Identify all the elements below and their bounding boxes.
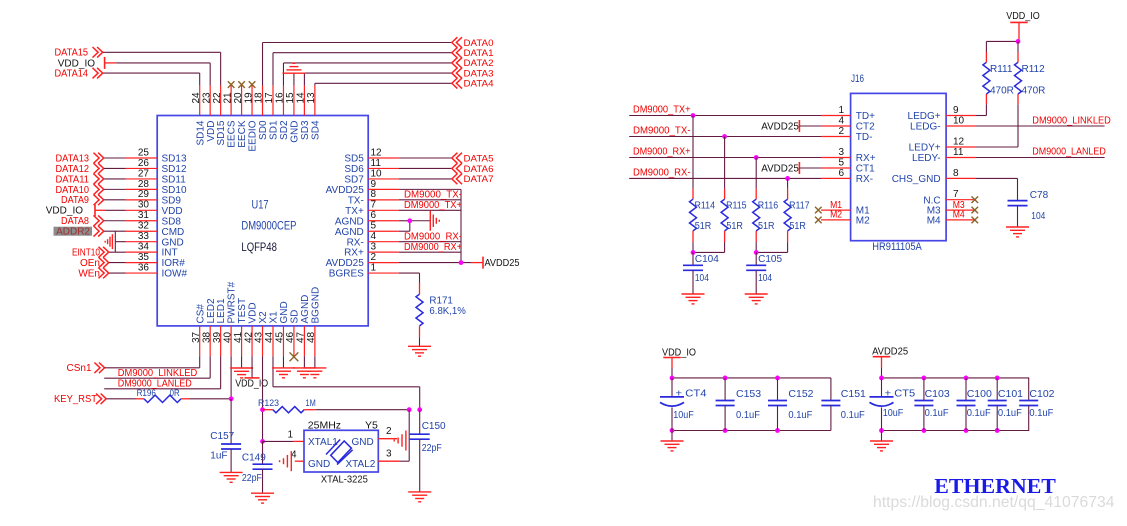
wire DATA11 to pin 27: [104, 178, 126, 180]
svg-text:1: 1: [287, 430, 293, 441]
svg-text:LEDY-: LEDY-: [912, 153, 941, 164]
svg-text:35: 35: [138, 252, 150, 263]
svg-text:DATA10: DATA10: [56, 185, 90, 196]
svg-text:AVDD25: AVDD25: [872, 346, 908, 357]
svg-text:DM9000_LANLED: DM9000_LANLED: [1032, 147, 1106, 158]
svg-text:DM9000_LINKLED: DM9000_LINKLED: [1032, 115, 1111, 126]
wire OEn: [109, 262, 126, 264]
pin 1 BGRES (right): [368, 272, 399, 274]
svg-text:6: 6: [838, 168, 844, 179]
ground flipped at pin 15 GND: [293, 73, 295, 85]
svg-text:RX-: RX-: [856, 174, 873, 185]
J16 pin M1 M1 (left): [821, 209, 851, 211]
pin 10 SD7 (right): [368, 178, 399, 180]
svg-text:GND: GND: [308, 459, 330, 470]
J16 pin 11 LEDY- (right): [946, 157, 976, 159]
svg-text:8: 8: [953, 168, 959, 179]
wire ADDR2 to pin 32: [104, 230, 126, 232]
svg-text:DATA1: DATA1: [464, 48, 494, 58]
svg-text:IOR#: IOR#: [162, 258, 186, 269]
svg-text:2: 2: [386, 426, 392, 437]
svg-text:AVDD25: AVDD25: [326, 258, 365, 269]
net label DM9000_RX- on pin 4: [399, 241, 461, 243]
pin 48 BGGND (bottom): [314, 326, 316, 356]
capacitor C100 0.1uF: [965, 378, 967, 401]
resistor R115 51R: [724, 137, 726, 189]
svg-text:DATA14: DATA14: [55, 69, 89, 80]
svg-text:LED1: LED1: [216, 298, 227, 323]
svg-text:M4: M4: [927, 216, 941, 227]
svg-text:SD13: SD13: [162, 154, 187, 165]
pin 31 SD8 (left): [126, 220, 158, 222]
svg-text:11: 11: [953, 147, 964, 158]
no-connect X at J16 pin 7: [972, 196, 979, 203]
svg-text:SD9: SD9: [162, 195, 182, 206]
svg-text:C153: C153: [736, 388, 761, 400]
power AVDD25 at pin 2: [399, 262, 471, 264]
svg-text:CSn1: CSn1: [66, 363, 91, 374]
svg-text:BGGND: BGGND: [310, 287, 321, 324]
port DATA2: [452, 58, 462, 69]
svg-text:WEn: WEn: [78, 268, 100, 279]
port DATA7: [452, 174, 462, 185]
capacitor C101 0.1uF: [996, 378, 998, 401]
wire AVDD25 pin9 down to pin2 row: [399, 188, 461, 190]
pin 12 SD5 (right): [368, 157, 399, 159]
net label ADDR2 (highlighted): [54, 227, 93, 236]
svg-text:VDD: VDD: [206, 121, 217, 142]
svg-text:0R: 0R: [170, 388, 180, 398]
svg-text:470R: 470R: [1022, 85, 1046, 96]
svg-text:DM9000_TX+: DM9000_TX+: [404, 200, 462, 211]
svg-text:XTAL2: XTAL2: [346, 459, 376, 470]
capacitor C157 1uF: [221, 444, 241, 449]
pin 35 IOR# (left): [126, 262, 158, 264]
wire R114-R115 junction: [692, 242, 694, 252]
ground at pin 45 GND: [282, 356, 284, 368]
svg-text:32: 32: [138, 221, 150, 232]
ground below R171: [408, 346, 431, 356]
svg-text:+ CT4: + CT4: [676, 387, 707, 399]
svg-text:11: 11: [371, 158, 382, 169]
ground at pin 47 AGND: [303, 356, 305, 368]
svg-text:CHS_GND: CHS_GND: [892, 174, 941, 185]
rail top VDD_IO: [672, 377, 831, 379]
svg-text:GND: GND: [352, 437, 374, 448]
svg-text:3: 3: [371, 242, 377, 253]
pin 25 SD13 (left): [126, 157, 158, 159]
resistor R123 1M: [263, 409, 273, 411]
crystal pin 2 stub: [378, 438, 397, 440]
svg-text:SD5: SD5: [344, 154, 364, 165]
pin 16 SD2 (top): [282, 85, 284, 115]
svg-text:14: 14: [296, 92, 307, 104]
capacitor C152 0.1uF: [777, 378, 779, 401]
svg-text:43: 43: [254, 331, 265, 343]
port DATA0: [452, 37, 462, 48]
svg-text:DATA4: DATA4: [464, 79, 494, 89]
svg-text:CMD: CMD: [162, 227, 185, 238]
pin 22 SD15 (top): [220, 85, 222, 115]
port DATA6: [452, 163, 462, 174]
svg-text:AVDD25: AVDD25: [761, 163, 799, 174]
svg-text:0.1uF: 0.1uF: [967, 407, 991, 419]
svg-text:45: 45: [275, 331, 286, 343]
pin 28 SD10 (left): [126, 188, 158, 190]
svg-text:9: 9: [371, 179, 377, 190]
svg-text:R117: R117: [789, 200, 810, 211]
pin 11 SD6 (right): [368, 167, 399, 169]
wire VDD_IO to R111 R112: [986, 40, 1019, 42]
svg-text:0.1uF: 0.1uF: [1029, 407, 1053, 419]
pin 32 CMD (left): [126, 230, 158, 232]
wire C78 to ground: [1017, 206, 1019, 227]
wire C149 to ground: [262, 469, 264, 493]
J16 pin 4 CT2 (left): [821, 125, 851, 127]
svg-text:15: 15: [285, 92, 296, 104]
wire AGND pins 6-5 junction: [399, 220, 410, 222]
svg-text:17: 17: [264, 92, 275, 104]
svg-text:C105: C105: [758, 254, 782, 265]
svg-text:DM9000_LINKLED: DM9000_LINKLED: [118, 368, 198, 379]
svg-text:27: 27: [138, 168, 150, 179]
wire pin43 to XTAL1 pin 1: [263, 440, 293, 442]
svg-text:104: 104: [1031, 211, 1045, 222]
svg-text:37: 37: [191, 331, 202, 343]
svg-text:HR911105A: HR911105A: [872, 241, 922, 253]
wire DATA2 from pin 16: [282, 63, 284, 86]
svg-text:SD0: SD0: [258, 120, 269, 140]
wire VDD_IO to pin 23 VDD: [116, 62, 210, 64]
svg-text:DM9000_RX+: DM9000_RX+: [633, 147, 691, 158]
ground below C149: [251, 493, 274, 503]
svg-text:1: 1: [371, 262, 377, 273]
svg-text:21: 21: [222, 92, 233, 104]
wire down to C149: [262, 441, 264, 464]
pin 23 VDD (top): [209, 85, 211, 115]
wire X1 node down through C150: [419, 410, 421, 435]
svg-text:C101: C101: [998, 388, 1023, 400]
svg-text:0.1uF: 0.1uF: [736, 409, 760, 421]
J16 pin 2 TD- (left): [821, 136, 851, 138]
svg-text:12: 12: [953, 136, 965, 147]
crystal pin 3 stub: [378, 460, 399, 462]
svg-text:TEST: TEST: [237, 298, 248, 324]
svg-text:DATA13: DATA13: [56, 153, 90, 164]
wire R196 to pin 40 PWRST#: [190, 398, 232, 400]
capacitor C153 0.1uF: [724, 378, 726, 401]
svg-text:C100: C100: [967, 388, 992, 400]
pin 42 VDD (bottom): [251, 326, 253, 356]
svg-text:48: 48: [306, 331, 317, 343]
svg-text:10: 10: [953, 115, 965, 126]
svg-text:41: 41: [233, 331, 244, 343]
no-connect X at J16 M1: [815, 207, 822, 214]
svg-text:20: 20: [233, 92, 244, 104]
wire VDD_IO to pin 30: [106, 209, 126, 211]
no-connect X pins 21-20-19: [228, 81, 235, 88]
svg-text:5: 5: [371, 221, 377, 232]
crystal symbol inside Y5: [326, 440, 353, 465]
resistor R114 51R: [692, 116, 694, 189]
svg-text:LQFP48: LQFP48: [241, 240, 277, 254]
wire XTAL2 node down to crystal pin 3: [407, 407, 412, 412]
svg-text:DM9000_TX+: DM9000_TX+: [633, 105, 691, 116]
pin 9 AVDD25 (right): [368, 188, 399, 190]
wire C104 to ground: [692, 270, 694, 294]
svg-text:33: 33: [138, 231, 150, 242]
rail bottom VDD_IO: [672, 430, 831, 432]
wire DM9000_TX+ to J16: [629, 115, 821, 117]
svg-text:4: 4: [371, 231, 377, 242]
svg-text:34: 34: [138, 242, 150, 253]
svg-text:EECS: EECS: [227, 120, 238, 148]
svg-text:TD-: TD-: [856, 132, 873, 143]
svg-text:22pF: 22pF: [422, 443, 442, 454]
svg-text:RX+: RX+: [344, 248, 364, 259]
svg-text:R111: R111: [990, 64, 1013, 75]
wire LEDG+ pin9 to R111: [976, 115, 986, 117]
pin 15 GND (top): [293, 85, 295, 115]
svg-text:GND: GND: [279, 301, 290, 323]
J16 pin M2 M2 (left): [821, 219, 851, 221]
wire R116-R117 junction: [755, 242, 757, 252]
pin 5 AGND (right): [368, 230, 399, 232]
crystal pin 4 stub: [295, 460, 304, 462]
svg-text:EECK: EECK: [237, 120, 248, 148]
svg-text:CS#: CS#: [195, 304, 206, 324]
pin 46 SD (bottom): [293, 326, 295, 356]
wire DATA8 to pin 31: [104, 220, 126, 222]
svg-text:0.1uF: 0.1uF: [788, 409, 812, 421]
svg-text:KEY_RST: KEY_RST: [54, 394, 97, 405]
svg-text:DM9000_RX-: DM9000_RX-: [633, 167, 691, 178]
svg-text:SD10: SD10: [162, 185, 187, 196]
svg-text:29: 29: [138, 189, 150, 200]
pin 8 TX- (right): [368, 199, 399, 201]
svg-text:C157: C157: [210, 431, 234, 442]
power VDD_IO at pin 42: [251, 356, 253, 378]
svg-text:104: 104: [758, 273, 772, 284]
svg-text:DATA7: DATA7: [464, 174, 494, 184]
svg-text:9: 9: [953, 105, 959, 116]
svg-text:SD8: SD8: [162, 216, 182, 227]
svg-text:5: 5: [838, 157, 844, 168]
svg-text:DATA5: DATA5: [464, 153, 494, 163]
pin 21 EECS (top): [230, 85, 232, 115]
svg-text:2: 2: [371, 252, 377, 263]
no-connect X at pin 46 SD: [290, 352, 299, 361]
ground below C157: [220, 472, 243, 482]
ground sideways at crystal pin 2: [394, 431, 406, 451]
svg-text:SD14: SD14: [195, 120, 206, 145]
capacitor CT5 10uF polarized: [881, 378, 883, 397]
J16 pin M4 M4 (right): [946, 219, 976, 221]
pin 45 GND (bottom): [282, 326, 284, 356]
svg-text:SD1: SD1: [269, 120, 280, 140]
svg-text:PWRST#: PWRST#: [227, 281, 238, 323]
J16 pin 12 LEDY+ (right): [946, 146, 976, 148]
J16 pin 10 LEDG- (right): [946, 125, 976, 127]
wire BGRES pin 1 to R171: [399, 272, 420, 274]
J16 pin 9 LEDG+ (right): [946, 115, 976, 117]
resistor R117 51R: [787, 178, 789, 188]
svg-text:1: 1: [838, 105, 844, 116]
J16 pin 7 N.C (right): [946, 199, 976, 201]
ground below C150: [408, 492, 431, 502]
J16 pin 5 CT1 (left): [821, 167, 851, 169]
svg-text:44: 44: [264, 331, 275, 343]
J16 pin 1 TD+ (left): [821, 115, 851, 117]
svg-text:25: 25: [138, 147, 150, 158]
wire DATA5 DATA6 DATA7 rows: [399, 157, 452, 159]
svg-text:R112: R112: [1022, 64, 1046, 75]
svg-text:30: 30: [138, 200, 150, 211]
svg-text:AVDD25: AVDD25: [761, 121, 799, 132]
svg-text:0.1uF: 0.1uF: [925, 407, 949, 419]
wire LEDY+ pin12 to R112: [976, 146, 1018, 148]
J16 pin 8 CHS_GND (right): [946, 177, 976, 179]
wire DATA10 to pin 28: [104, 188, 126, 190]
net label DM9000_LINKLED right: [976, 125, 1105, 127]
wire DATA0 from pin 18: [262, 43, 264, 86]
wire DM9000_RX- to J16: [629, 177, 821, 179]
svg-text:AVDD25: AVDD25: [326, 185, 365, 196]
J16 pin 6 RX- (left): [821, 177, 851, 179]
svg-text:31: 31: [138, 210, 150, 221]
pin 29 SD9 (left): [126, 199, 158, 201]
resistor R112 470R: [1017, 41, 1019, 52]
svg-text:16: 16: [275, 92, 286, 104]
svg-text:12: 12: [371, 147, 383, 158]
pin 30 VDD (left): [126, 209, 158, 211]
svg-text:10: 10: [371, 168, 383, 179]
wire DATA13 to pin 25: [104, 157, 126, 159]
pin 38 LED2 (bottom): [209, 326, 211, 356]
pin 40 PWRST# (bottom): [230, 326, 232, 356]
svg-text:DATA6: DATA6: [464, 164, 494, 174]
net label DM9000_LANLED right: [976, 157, 1105, 159]
svg-text:EEDIO: EEDIO: [248, 120, 259, 151]
svg-text:25MHz: 25MHz: [308, 419, 341, 431]
ground below C104: [682, 294, 705, 304]
net label DM9000_TX- on pin 8: [399, 199, 461, 201]
net label DM9000_RX+ on pin 3: [399, 251, 461, 253]
wire DM9000_TX- to J16: [629, 136, 821, 138]
svg-text:AVDD25: AVDD25: [485, 258, 520, 269]
svg-text:4: 4: [838, 115, 844, 126]
svg-text:M2: M2: [856, 216, 870, 227]
svg-text:1M: 1M: [306, 398, 316, 408]
svg-text:22: 22: [212, 92, 223, 104]
svg-text:N.C: N.C: [923, 195, 940, 206]
pin 36 IOW# (left): [126, 272, 158, 274]
svg-text:+ CT5: + CT5: [885, 387, 916, 399]
pin 13 SD4 (top): [314, 85, 316, 115]
port DATA3: [452, 68, 462, 79]
svg-text:IOW#: IOW#: [162, 269, 188, 280]
ground at pin 41 TEST: [241, 356, 243, 368]
wire DATA12 to pin 26: [104, 167, 126, 169]
svg-text:6.8K,1%: 6.8K,1%: [429, 305, 466, 317]
svg-text:R196: R196: [137, 388, 156, 398]
svg-text:https://blog.csdn.net/qq_41076: https://blog.csdn.net/qq_41076734: [873, 494, 1115, 511]
capacitor C78 104: [1008, 201, 1028, 206]
wire C150 to ground: [419, 439, 421, 492]
resistor R116 51R: [755, 158, 757, 189]
svg-text:0.1uF: 0.1uF: [841, 409, 865, 421]
pin 33 GND (left): [126, 241, 158, 243]
svg-text:VDD_IO: VDD_IO: [1006, 11, 1040, 22]
wire C105 to ground: [755, 270, 757, 294]
svg-text:DM9000_TX-: DM9000_TX-: [404, 190, 462, 201]
svg-text:DM9000_RX+: DM9000_RX+: [404, 242, 462, 253]
capacitor C103 0.1uF: [923, 378, 925, 401]
svg-text:SD12: SD12: [162, 164, 187, 175]
svg-text:46: 46: [285, 331, 296, 343]
svg-text:LEDG-: LEDG-: [910, 122, 941, 133]
svg-text:AGND: AGND: [335, 216, 364, 227]
svg-text:0.1uF: 0.1uF: [998, 407, 1022, 419]
svg-text:M2: M2: [830, 210, 842, 221]
svg-text:10uF: 10uF: [673, 409, 694, 421]
port DATA1: [452, 47, 462, 58]
svg-text:GND: GND: [290, 121, 301, 143]
svg-text:42: 42: [243, 331, 254, 343]
pin 19 EEDIO (top): [251, 85, 253, 115]
pin 34 INT (left): [126, 251, 158, 253]
crystal Y5 XTAL-3225 body: [304, 430, 378, 472]
ground sideways at crystal pin 4: [280, 451, 292, 471]
svg-text:VDD_IO: VDD_IO: [235, 379, 268, 390]
svg-text:J16: J16: [851, 73, 864, 85]
svg-text:23: 23: [201, 92, 212, 104]
svg-text:DM9000_RX-: DM9000_RX-: [404, 231, 462, 242]
svg-text:SD7: SD7: [344, 175, 364, 186]
pin 20 EECK (top): [241, 85, 243, 115]
svg-text:XTAL-3225: XTAL-3225: [321, 474, 368, 486]
pin 41 TEST (bottom): [241, 326, 243, 356]
wire pin 43 X2 down: [262, 356, 264, 441]
svg-text:DATA9: DATA9: [61, 195, 89, 206]
svg-text:3: 3: [838, 147, 844, 158]
net label DM9000_LINKLED on pin 38: [104, 377, 210, 379]
svg-text:3: 3: [386, 448, 392, 459]
svg-text:51R: 51R: [758, 221, 775, 232]
resistor R111 470R: [985, 41, 987, 52]
svg-text:7: 7: [953, 189, 959, 200]
pin 39 LED1 (bottom): [220, 326, 222, 356]
ground below C78: [1006, 227, 1029, 237]
pin 26 SD12 (left): [126, 167, 158, 169]
capacitor C102 0.1uF: [1028, 378, 1030, 401]
svg-text:LEDY+: LEDY+: [909, 143, 941, 154]
svg-text:TD+: TD+: [856, 111, 875, 122]
svg-text:GND: GND: [162, 237, 184, 248]
svg-text:19: 19: [243, 92, 254, 104]
resistor R171 6.8K: [419, 283, 421, 294]
svg-text:R115: R115: [726, 200, 747, 211]
wire R123 to XTAL2 node: [316, 409, 409, 411]
rail bottom AVDD25: [882, 430, 1030, 432]
svg-text:SD15: SD15: [216, 120, 227, 145]
pin 6 AGND (right): [368, 220, 399, 222]
svg-text:RX+: RX+: [856, 153, 876, 164]
svg-text:M4: M4: [953, 210, 965, 221]
svg-text:U17: U17: [252, 198, 269, 212]
connector J16 HR911105A body: [851, 93, 947, 240]
svg-text:SD6: SD6: [344, 164, 364, 175]
